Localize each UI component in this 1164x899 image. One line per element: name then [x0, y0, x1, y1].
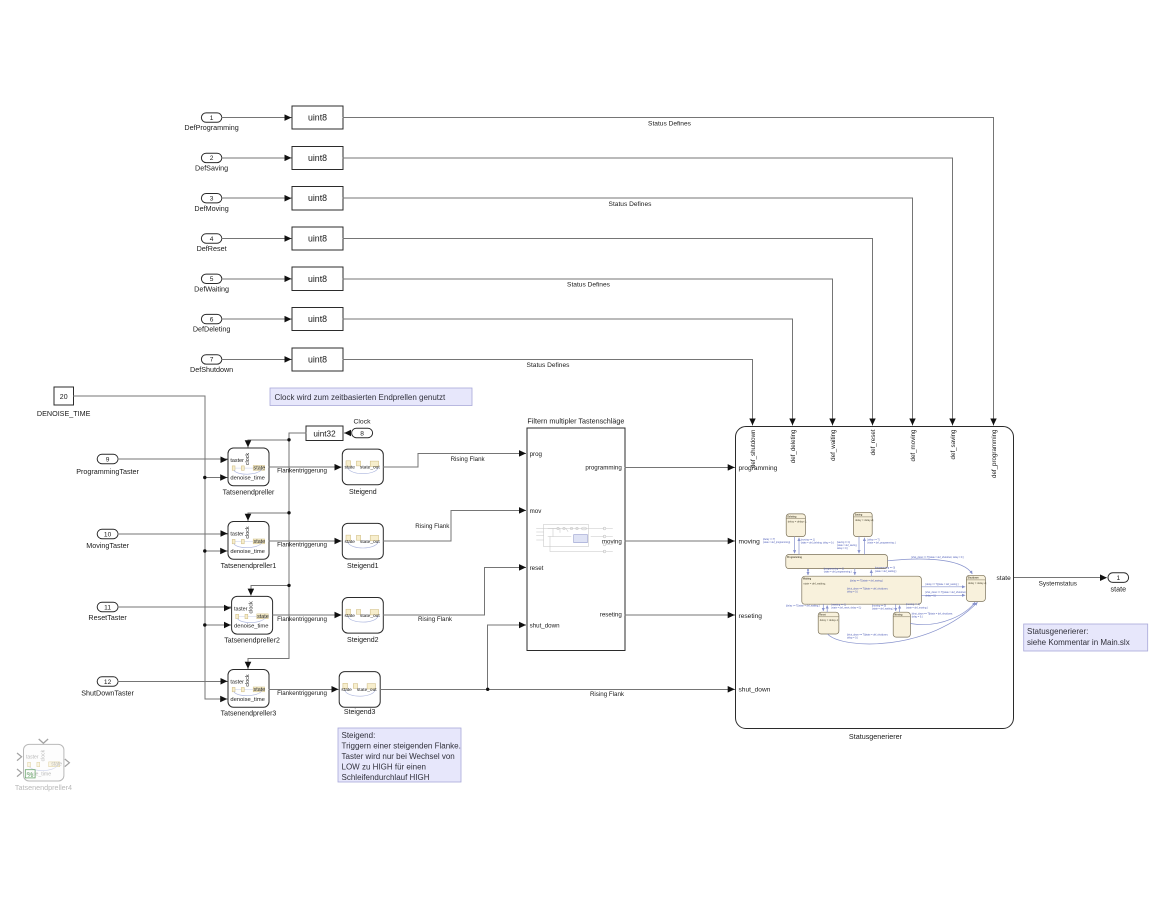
svg-text:delay = delay+1;: delay = delay+1;	[968, 581, 987, 585]
svg-text:Shutdown: Shutdown	[968, 577, 980, 580]
junction denoise 1	[203, 476, 206, 479]
wire reseting Filtern to Statusgenerierer	[625, 614, 734, 616]
wire state to output port	[1014, 577, 1107, 579]
svg-text:2: 2	[210, 155, 214, 162]
svg-text:Rising Flank: Rising Flank	[590, 691, 625, 698]
svg-text:reset: reset	[530, 565, 544, 572]
svg-text:shut_down: shut_down	[739, 686, 771, 693]
svg-text:[saving == 1]: [saving == 1]	[837, 542, 851, 544]
svg-text:Steigend2: Steigend2	[347, 637, 379, 644]
wire ShutDownTaster to taster	[118, 680, 227, 682]
junction clock 2	[287, 511, 290, 514]
chart Statusgenerierer	[736, 427, 1014, 729]
wire state to Steigend row 4	[269, 688, 338, 690]
input port 1 DefProgramming	[184, 113, 238, 132]
svg-text:delay = delay+1;: delay = delay+1;	[788, 520, 807, 524]
wire clock port to uint32	[345, 432, 352, 434]
svg-text:9: 9	[106, 456, 110, 463]
svg-text:Flankentriggerung: Flankentriggerung	[277, 690, 327, 697]
svg-text:[delay == T]{state = def_savin: [delay == T]{state = def_saving;}	[850, 579, 883, 582]
svg-text:{state = def_saving;: {state = def_saving;	[837, 544, 857, 547]
svg-text:Filtern multipler Tastenschläg: Filtern multipler Tastenschläge	[527, 417, 624, 426]
svg-text:uint8: uint8	[308, 153, 327, 163]
junction denoise 2	[203, 549, 206, 552]
svg-text:uint8: uint8	[308, 354, 327, 364]
wire ResetTaster to taster	[118, 607, 230, 608]
svg-text:reseting: reseting	[600, 612, 623, 619]
svg-text:4: 4	[210, 236, 214, 243]
input port 10 MovingTaster	[86, 529, 129, 550]
svg-text:Rising Flank: Rising Flank	[418, 616, 453, 623]
svg-text:Status Defines: Status Defines	[567, 281, 611, 288]
svg-text:Reset: Reset	[819, 614, 825, 617]
wire uint8 row 6 to Statusgenerierer top	[343, 319, 793, 425]
svg-text:state = def_waiting;: state = def_waiting;	[803, 581, 826, 585]
svg-text:Steigend: Steigend	[349, 489, 377, 496]
uint8 conversion block row 4	[292, 227, 343, 250]
svg-text:Tatsenendpreller3: Tatsenendpreller3	[221, 711, 277, 718]
wire uint8 row 7 to Statusgenerierer top	[343, 359, 753, 425]
wire Steigend2 to reset (Rising Flank)	[383, 567, 525, 615]
wire DefProgramming to uint8	[222, 117, 291, 119]
svg-text:[programming == 0]: [programming == 0]	[875, 567, 895, 570]
svg-text:delay = 0;}: delay = 0;}	[925, 595, 936, 597]
svg-text:delay = 0;}: delay = 0;}	[847, 592, 858, 594]
wire uint8 row 3 to Statusgenerierer top	[343, 198, 913, 425]
svg-text:uint8: uint8	[308, 314, 327, 324]
svg-text:Triggern einer steigenden Flan: Triggern einer steigenden Flanke.	[342, 741, 461, 750]
note Statusgenerierer annotation	[1024, 624, 1148, 651]
subsystem Steigend2	[342, 598, 383, 634]
transition Waiting-Reset	[823, 604, 827, 612]
svg-text:Tatsenendpreller2: Tatsenendpreller2	[224, 638, 280, 645]
svg-text:Tatsenendpreller: Tatsenendpreller	[223, 490, 275, 497]
svg-text:{state = def_reset; delay = 0;: {state = def_reset; delay = 0;}	[831, 607, 861, 610]
SECTION: notes and faded block	[15, 388, 1148, 792]
svg-text:def_moving: def_moving	[910, 429, 917, 462]
svg-text:[moving == 1]: [moving == 1]	[801, 539, 815, 541]
svg-text:Programming: Programming	[787, 557, 803, 559]
state Waiting	[802, 576, 922, 604]
wire uint8 row 4 to Statusgenerierer top	[343, 239, 873, 425]
input port 5 DefWaiting	[194, 274, 229, 293]
state Shutdown	[966, 575, 987, 601]
svg-text:ShutDownTaster: ShutDownTaster	[81, 688, 134, 697]
uint8 conversion block row 3	[292, 187, 343, 210]
svg-text:Schleifendurchlauf HIGH: Schleifendurchlauf HIGH	[342, 773, 430, 782]
wire programming Filtern to Statusgenerierer	[625, 466, 734, 468]
svg-text:{state = def_waiting;}: {state = def_waiting;}	[872, 607, 894, 610]
Filtern interior icon	[537, 525, 613, 553]
note clock annotation	[270, 388, 472, 406]
input port 7 DefShutdown	[190, 355, 233, 374]
svg-text:uint32: uint32	[313, 430, 336, 439]
svg-text:[shut_down == T]{state = def_s: [shut_down == T]{state = def_shutdown;	[925, 591, 966, 594]
svg-text:def_shutdown: def_shutdown	[750, 429, 757, 468]
svg-text:delay = 0;}: delay = 0;}	[837, 548, 848, 550]
subsystem Tatsenendpreller3	[228, 670, 269, 708]
subsystem Filtern multipler Tastenschlaege	[527, 417, 625, 651]
svg-text:mov: mov	[530, 508, 543, 515]
svg-text:{state = def_waiting;}: {state = def_waiting;}	[875, 570, 897, 573]
clock port 8	[352, 419, 373, 438]
svg-text:6: 6	[210, 316, 214, 323]
svg-text:Steigend3: Steigend3	[344, 709, 376, 716]
svg-text:state: state	[997, 575, 1012, 582]
svg-text:[programming == 1]: [programming == 1]	[824, 568, 844, 571]
svg-text:[delay >= T]: [delay >= T]	[867, 539, 879, 542]
wire moving Filtern to Statusgenerierer	[625, 540, 734, 542]
svg-text:Steigend:: Steigend:	[342, 731, 376, 740]
wire Steigend1 to mov (Rising Flank)	[383, 510, 525, 541]
svg-text:1: 1	[210, 115, 214, 122]
junction clock 3	[287, 584, 290, 587]
junction clock 1	[287, 438, 290, 441]
wire clock distribution	[248, 433, 306, 668]
wire Steigend3 to shut_down ports (Rising Flank)	[380, 688, 734, 690]
svg-text:Flankentriggerung: Flankentriggerung	[277, 541, 327, 548]
svg-text:Moving: Moving	[894, 615, 903, 617]
input port 4 DefReset	[197, 234, 227, 253]
subsystem Tatsenendpreller2	[232, 596, 273, 634]
uint8 conversion block row 5	[292, 267, 343, 290]
svg-text:[delay >= T]: [delay >= T]	[763, 538, 775, 541]
svg-text:Waiting: Waiting	[803, 578, 812, 581]
output port 1 state	[1108, 573, 1129, 594]
input port 9 ProgrammingTaster	[76, 454, 139, 476]
input port 2 DefSaving	[195, 153, 228, 172]
svg-text:{state = def_programming;}: {state = def_programming;}	[824, 571, 852, 574]
wire DENOISE_TIME distribution	[74, 396, 227, 699]
svg-text:Deleting: Deleting	[787, 515, 797, 518]
input port 6 DefDeleting	[193, 314, 231, 333]
subsystem Tatsenendpreller1	[228, 522, 269, 560]
svg-text:Rising Flank: Rising Flank	[451, 456, 486, 463]
wire uint8 row 1 to Statusgenerierer top	[343, 118, 994, 425]
svg-text:state: state	[51, 762, 62, 768]
svg-text:Systemstatus: Systemstatus	[1039, 581, 1077, 588]
state Saving	[854, 512, 875, 536]
commented subsystem Tatsenendpreller4	[15, 739, 72, 792]
svg-text:1: 1	[1116, 575, 1120, 582]
input port 20 DENOISE_TIME	[37, 387, 91, 418]
wire uint8 row 2 to Statusgenerierer top	[343, 158, 953, 425]
state Reset	[818, 612, 839, 634]
svg-text:ProgrammingTaster: ProgrammingTaster	[76, 467, 139, 476]
svg-text:delay = delay+1;: delay = delay+1;	[855, 518, 874, 522]
svg-text:prog: prog	[530, 451, 543, 458]
svg-text:[shut_down == T]{state = def_s: [shut_down == T]{state = def_shutdown;	[912, 613, 953, 616]
svg-text:DefMoving: DefMoving	[194, 204, 228, 213]
wire DefDeleting to uint8	[222, 318, 291, 320]
svg-text:10: 10	[104, 531, 112, 538]
svg-text:def_deleting: def_deleting	[790, 429, 797, 463]
wire Steigend to prog (Rising Flank)	[383, 453, 525, 467]
svg-text:def_waiting: def_waiting	[830, 429, 837, 461]
transition labels	[763, 538, 967, 639]
svg-text:DefShutdown: DefShutdown	[190, 365, 233, 374]
svg-text:Status Defines: Status Defines	[527, 362, 571, 369]
svg-text:3: 3	[210, 196, 214, 203]
svg-text:[shut_down == T]{state = def_s: [shut_down == T]{state = def_shutdown; d…	[911, 556, 964, 559]
svg-text:DefReset: DefReset	[197, 244, 227, 253]
wire MovingTaster to taster	[118, 533, 227, 536]
svg-text:{state = def_programming; }: {state = def_programming; }	[867, 542, 896, 545]
subsystem Steigend	[342, 449, 383, 485]
svg-text:delay = 0;}: delay = 0;}	[912, 617, 923, 619]
svg-text:Status Defines: Status Defines	[648, 120, 692, 127]
uint8 conversion block row 7	[292, 348, 343, 371]
junction shut_down	[486, 688, 489, 691]
wire uint8 row 5 to Statusgenerierer top	[343, 279, 833, 425]
wire DefMoving to uint8	[222, 197, 291, 199]
svg-text:[shut_down == T]{state = def_s: [shut_down == T]{state = def_shutdown;	[847, 588, 888, 591]
svg-text:Tatsenendpreller4: Tatsenendpreller4	[15, 783, 72, 792]
input port 11 ResetTaster	[88, 602, 127, 622]
uint32 conversion block	[306, 426, 343, 441]
svg-text:DefWaiting: DefWaiting	[194, 284, 229, 293]
svg-text:Rising Flank: Rising Flank	[415, 523, 450, 530]
svg-text:[moving == 1]: [moving == 1]	[906, 604, 920, 606]
input port 3 DefMoving	[194, 194, 228, 213]
svg-text:programming: programming	[585, 465, 622, 472]
svg-text:Tatsenendpreller1: Tatsenendpreller1	[221, 563, 277, 570]
junction denoise 3	[203, 623, 206, 626]
wire DefSaving to uint8	[222, 157, 291, 159]
svg-text:delay = delay+1;: delay = delay+1;	[820, 618, 839, 622]
wire DefWaiting to uint8	[222, 278, 291, 280]
wire DefReset to uint8	[222, 238, 291, 240]
wire DefShutdown to uint8	[222, 358, 291, 360]
uint8 conversion block row 2	[292, 146, 343, 169]
svg-text:state: state	[1111, 585, 1127, 594]
svg-text:{state = def_moving;}: {state = def_moving;}	[906, 606, 928, 609]
svg-text:12: 12	[104, 679, 112, 686]
wire state to Steigend row 3	[273, 614, 341, 616]
svg-text:DefDeleting: DefDeleting	[193, 325, 231, 334]
svg-text:Clock: Clock	[354, 419, 372, 426]
svg-text:uint8: uint8	[308, 113, 327, 123]
uint8 conversion block row 6	[292, 308, 343, 331]
svg-text:uint8: uint8	[308, 234, 327, 244]
state Programming	[786, 555, 888, 569]
svg-text:[shut_down == T]{state = def_s: [shut_down == T]{state = def_shutdown;	[847, 633, 888, 636]
SECTION: statusgenerierer chart	[736, 427, 1129, 741]
svg-text:def_saving: def_saving	[950, 429, 957, 459]
svg-text:moving: moving	[739, 539, 761, 546]
svg-text:%: %	[27, 770, 34, 779]
svg-text:def_programming: def_programming	[991, 429, 998, 478]
svg-text:{state = def_deleting; delay =: {state = def_deleting; delay = 0;}	[801, 541, 834, 544]
svg-text:Clock wird zum zeitbasierten E: Clock wird zum zeitbasierten Endprellen …	[275, 393, 447, 402]
subsystem Steigend1	[342, 523, 383, 559]
svg-text:{state = def_programming}: {state = def_programming}	[763, 541, 790, 544]
svg-text:uint8: uint8	[308, 193, 327, 203]
svg-text:taster: taster	[26, 754, 39, 760]
input port 12 ShutDownTaster	[81, 677, 134, 698]
svg-text:20: 20	[60, 394, 68, 401]
svg-text:reseting: reseting	[739, 613, 763, 620]
wire state to Steigend row 1	[269, 466, 341, 468]
svg-text:[delay >= T]{state = def_waiti: [delay >= T]{state = def_waiting;}	[786, 605, 820, 608]
transition Deleting-Programming	[795, 537, 799, 555]
svg-text:DENOISE_TIME: DENOISE_TIME	[37, 409, 91, 418]
svg-text:delay = 0;}: delay = 0;}	[847, 637, 858, 639]
svg-text:uint8: uint8	[308, 274, 327, 284]
svg-text:7: 7	[210, 357, 214, 364]
svg-text:programming: programming	[739, 465, 778, 472]
transition Programming-Shutdown curve	[888, 559, 973, 574]
svg-text:Saving: Saving	[855, 515, 863, 517]
transition Saving-Programming	[859, 537, 864, 555]
svg-text:5: 5	[210, 276, 214, 283]
svg-text:8: 8	[360, 430, 364, 437]
svg-text:siehe Kommentar in Main.slx: siehe Kommentar in Main.slx	[1027, 638, 1130, 647]
svg-text:Status Defines: Status Defines	[609, 201, 653, 208]
default transition Waiting	[807, 570, 809, 575]
svg-text:ResetTaster: ResetTaster	[88, 613, 127, 622]
svg-text:[reseting == 1]: [reseting == 1]	[831, 603, 846, 606]
svg-text:Taster wird nur bei Wechsel vo: Taster wird nur bei Wechsel von	[342, 752, 455, 761]
subsystem Tatsenendpreller	[228, 448, 269, 486]
svg-text:DefProgramming: DefProgramming	[184, 123, 238, 132]
svg-text:Flankentriggerung: Flankentriggerung	[277, 616, 327, 623]
svg-text:Steigend1: Steigend1	[347, 563, 379, 570]
svg-text:[delay == T]{state = def_savin: [delay == T]{state = def_saving;}	[926, 583, 959, 586]
svg-text:MovingTaster: MovingTaster	[86, 541, 129, 550]
svg-text:11: 11	[104, 604, 111, 611]
svg-text:Statusgenerierer: Statusgenerierer	[849, 732, 903, 741]
svg-text:def_reset: def_reset	[870, 429, 877, 455]
svg-text:[moving == 0]: [moving == 0]	[872, 605, 886, 607]
transition Programming-Waiting	[855, 569, 872, 577]
transition Moving-Shutdown curve	[910, 602, 975, 624]
subsystem Steigend3	[339, 672, 380, 708]
svg-text:Flankentriggerung: Flankentriggerung	[277, 468, 327, 475]
note Steigend annotation	[338, 728, 461, 782]
svg-text:LOW zu HIGH für einen: LOW zu HIGH für einen	[342, 763, 426, 772]
svg-text:Statusgenerierer:: Statusgenerierer:	[1027, 627, 1088, 636]
transition Waiting-Shutdown	[921, 587, 965, 596]
svg-text:clock: clock	[40, 749, 46, 761]
svg-text:DefSaving: DefSaving	[195, 164, 228, 173]
state Moving	[893, 612, 910, 637]
uint8 conversion block row 1	[292, 106, 343, 129]
SECTION: top define ports and uint8 converters	[184, 106, 993, 425]
wire ProgrammingTaster to taster	[118, 458, 227, 461]
svg-text:shut_down: shut_down	[530, 622, 560, 629]
wire state to Steigend row 2	[269, 540, 341, 542]
state Deleting	[786, 514, 807, 537]
transition Waiting-Moving	[896, 604, 900, 612]
SECTION: middle taster chain	[37, 387, 734, 718]
transition Reset-Shutdown curve	[828, 602, 978, 644]
